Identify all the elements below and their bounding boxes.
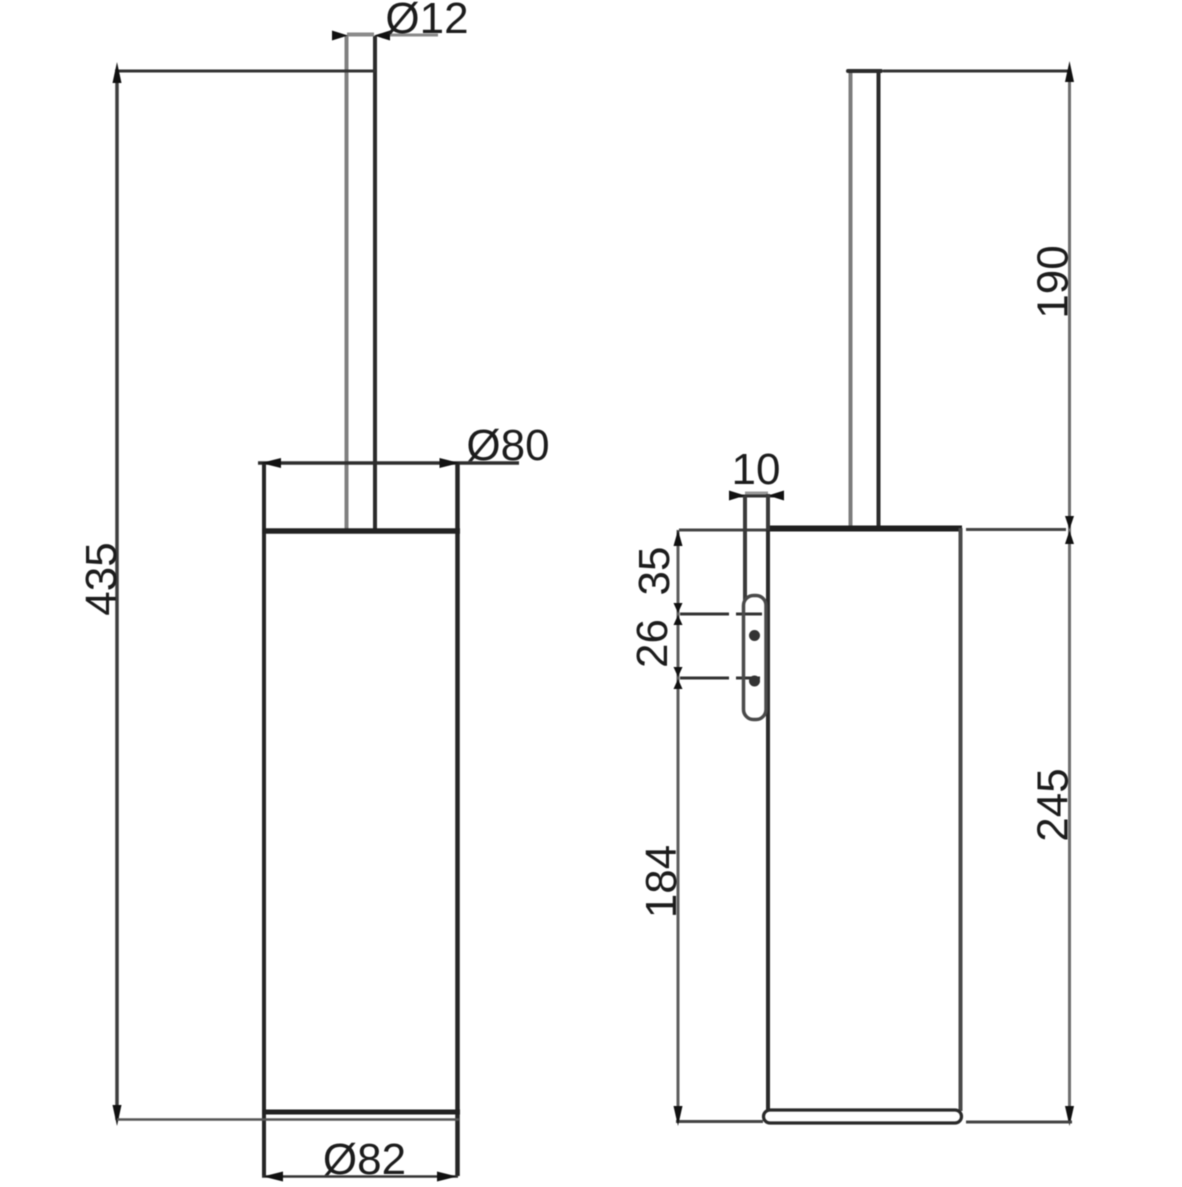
- svg-text:435: 435: [77, 542, 126, 615]
- svg-text:35: 35: [630, 547, 679, 596]
- svg-text:Ø80: Ø80: [466, 421, 549, 470]
- svg-text:245: 245: [1029, 768, 1078, 841]
- svg-text:Ø82: Ø82: [323, 1135, 406, 1182]
- svg-text:Ø12: Ø12: [385, 0, 468, 43]
- svg-text:26: 26: [628, 619, 677, 668]
- svg-text:10: 10: [732, 445, 781, 494]
- svg-text:190: 190: [1029, 245, 1078, 318]
- svg-text:184: 184: [637, 845, 686, 918]
